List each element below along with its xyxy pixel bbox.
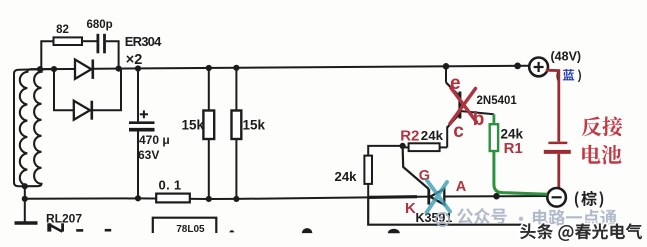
label (blue wire)	[556, 69, 581, 82]
node bottom row pad 1	[76, 229, 83, 232]
terminal -48V (brown)	[547, 188, 566, 207]
wire top rail	[37, 66, 529, 70]
pin label b	[473, 109, 485, 130]
svg-text:2N5401: 2N5401	[477, 95, 518, 107]
resistor 15k (second)	[232, 68, 242, 199]
part label R2	[400, 127, 419, 144]
wire thick segment to SCR cathode	[368, 195, 417, 199]
diode D2 ER304 (lower branch)	[54, 69, 121, 120]
watermark text dianlu yidiantong	[533, 209, 617, 225]
transistor Q1 2N5401	[446, 83, 494, 148]
value label 24k (left)	[335, 169, 358, 184]
svg-text:RL207: RL207	[46, 211, 82, 225]
watermark logo circle	[436, 213, 449, 226]
svg-text:0. 1: 0. 1	[159, 178, 182, 193]
wire RC snubber branch (up from tap A)	[41, 41, 53, 69]
wire transformer bottom to ground rail	[24, 186, 26, 222]
fault cross over SCR (teal X)	[427, 181, 451, 213]
value label 63V	[138, 148, 159, 162]
regulator IC 78L05 (box, cut off)	[153, 218, 217, 233]
pin label A	[456, 179, 467, 195]
label reversed battery (Chinese) line 2	[582, 145, 621, 165]
node bottom row pad 5	[388, 229, 400, 234]
node transformer top tap B	[51, 66, 57, 72]
value label 24k (R2)	[421, 128, 444, 143]
node 15k second bottom	[233, 196, 239, 202]
node anode wire junction	[493, 193, 500, 200]
pin label K	[405, 200, 416, 217]
wire capacitor to rail	[106, 41, 119, 68]
wire 24k bottom to rail	[367, 184, 369, 197]
part label ER304	[125, 34, 162, 49]
wire battery positive (red)	[546, 70, 559, 141]
node transformer top tap A	[37, 66, 43, 72]
capacitor 680p	[98, 34, 105, 54]
svg-text:ER304: ER304	[125, 34, 162, 49]
part label 2N5401	[477, 95, 518, 107]
wire resistor 82 to capacitor	[82, 40, 97, 42]
svg-text:15k: 15k	[243, 117, 266, 132]
node bottom row pad 4	[302, 228, 313, 233]
label (48V)	[551, 50, 582, 64]
pin label e	[450, 73, 461, 94]
wire junction to 24k resistor	[368, 146, 402, 156]
wire gate lead (junction to SCR gate)	[403, 146, 429, 189]
thyristor SCR K3591	[429, 189, 445, 205]
part label 78L05	[176, 224, 205, 235]
wire battery negative (red)	[557, 154, 560, 188]
watermark text gongzhonghao	[457, 208, 506, 224]
transformer T1 winding (left)	[20, 69, 40, 186]
node top rail / terminal branch	[514, 62, 521, 69]
svg-text:K: K	[405, 200, 416, 217]
value label 15k (first)	[182, 117, 205, 132]
svg-text:470 μ: 470 μ	[139, 133, 170, 147]
svg-text:×2: ×2	[126, 52, 143, 68]
watermark separator dot	[519, 217, 523, 221]
svg-text:680p: 680p	[87, 19, 113, 31]
svg-text:(48V): (48V)	[551, 50, 582, 64]
resistor 82	[54, 37, 83, 45]
transformer T1 winding (right)	[25, 69, 54, 186]
svg-text:K3591: K3591	[416, 211, 453, 225]
pin label c	[453, 121, 464, 142]
ground	[15, 221, 38, 224]
node transformer bottom junction	[22, 183, 28, 189]
wire bottom rail	[25, 196, 548, 199]
value label 680p	[87, 19, 113, 31]
node RC branch / diode branch junction	[116, 66, 122, 72]
part label RL207	[46, 211, 82, 225]
wire lower return (down and right)	[368, 197, 524, 224]
svg-text:82: 82	[56, 24, 69, 36]
node 15k second top	[233, 65, 239, 71]
node 15k first bottom	[206, 196, 212, 202]
resistor R1 24k (green highlighted)	[490, 114, 498, 151]
part label R1	[504, 140, 523, 157]
watermark text toutiao (white outlined)	[520, 223, 642, 241]
node bottom row pad 3	[229, 230, 234, 232]
svg-text:63V: 63V	[138, 148, 159, 162]
capacitor C1 470u/63V electrolytic	[129, 69, 155, 199]
wire emitter branch down	[445, 66, 447, 82]
label reversed battery (Chinese) line 1	[582, 117, 623, 137]
svg-text:24k: 24k	[335, 169, 358, 184]
battery reversed (red plates)	[544, 143, 571, 152]
svg-text:78L05: 78L05	[176, 224, 205, 235]
value label 0.1	[159, 178, 182, 193]
resistor 0.1 (horizontal)	[156, 194, 190, 203]
svg-text:15k: 15k	[182, 117, 205, 132]
value label 82	[56, 24, 69, 36]
svg-text:c: c	[453, 121, 464, 142]
node C1 top on rail	[135, 65, 141, 71]
transformer T1 primary left leg	[14, 69, 40, 186]
node R2 / 24k / gate junction	[400, 143, 406, 149]
svg-text:A: A	[456, 179, 467, 195]
svg-text:R2: R2	[400, 127, 419, 144]
fault cross over Q1 (red X)	[450, 88, 477, 124]
quantity label x2	[126, 52, 143, 68]
resistor 24k (vertical, left)	[364, 156, 372, 184]
value label 470u	[139, 133, 170, 147]
node C1 bottom on rail	[135, 195, 141, 201]
svg-text:24k: 24k	[421, 128, 444, 143]
pin label G	[419, 168, 430, 184]
part label K3591	[416, 211, 453, 225]
label (brown wire)	[575, 191, 603, 208]
value label 15k (second)	[243, 117, 266, 132]
terminal +48V	[529, 58, 548, 77]
node bottom rail left	[22, 196, 28, 202]
node top rail / transistor emitter branch	[443, 63, 450, 70]
diode D1 ER304 (on rail)	[75, 60, 93, 79]
value label 24k (R1)	[501, 127, 524, 142]
wire R1 to negative terminal (green)	[494, 151, 547, 194]
node 15k first top	[206, 65, 212, 71]
resistor 15k (first)	[203, 68, 214, 199]
resistor R2 24k (horizontal)	[403, 143, 448, 151]
diode RL207 (cut off at bottom)	[49, 223, 63, 231]
node bottom row pad 2	[105, 229, 112, 232]
svg-text:R1: R1	[504, 140, 523, 157]
